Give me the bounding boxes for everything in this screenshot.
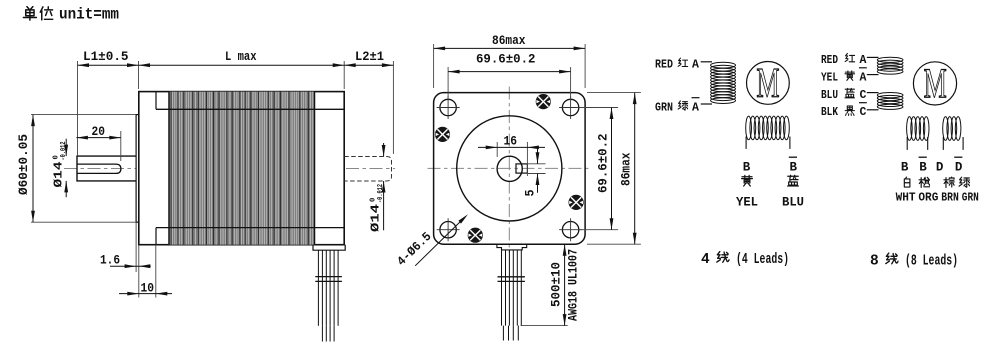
svg-text:B: B [901,160,909,174]
label YEL yellow Abar [821,68,867,85]
mounting hole bottom-left [437,218,460,241]
phase B terminal left [745,137,747,149]
mounting hole bottom-right [559,218,582,241]
svg-text:Ø14: Ø14 [53,161,66,187]
svg-text:D: D [955,160,963,174]
svg-text:20: 20 [92,124,106,139]
label GRN green Abar [655,98,700,115]
label 4-dia6.5 leader [415,218,464,266]
wire A to coil [867,56,879,58]
front wire ends [502,326,504,341]
label RED red A 8lead [821,53,867,66]
8-lead phase A coil [877,57,903,74]
svg-text:Ø60±0.05: Ø60±0.05 [17,134,31,195]
dimension L max [139,64,345,66]
title unit text [23,6,119,24]
svg-text:unit=mm: unit=mm [59,6,119,24]
svg-text:86max: 86max [620,152,634,186]
svg-text:16: 16 [504,134,518,149]
shaft keyway slot [77,164,121,173]
svg-text:AWG18 UL1007: AWG18 UL1007 [566,249,581,321]
label B yellow YEL [736,160,758,209]
side cable tie [315,276,342,278]
front wire exit box [497,244,527,250]
svg-text:0: 0 [52,155,60,159]
dimension 10 [155,245,157,298]
label BLU blue C [821,88,867,102]
side view center line [64,168,395,170]
svg-text:-0.012: -0.012 [377,184,385,203]
4-lead phase A coil [711,62,736,103]
svg-text:BLU: BLU [821,89,838,102]
svg-text:B: B [790,160,798,174]
motor symbol M 4-lead [747,60,790,107]
svg-text:500±10: 500±10 [549,262,564,307]
svg-text:L1±0.5: L1±0.5 [83,49,129,64]
svg-text:A: A [860,54,867,67]
svg-text:-0.012: -0.012 [60,142,68,161]
pilot boss circle [457,116,562,221]
svg-text:BRN: BRN [941,191,959,205]
svg-text:GRN: GRN [962,191,979,205]
dimension 500 wires [521,325,568,327]
svg-text:WHT: WHT [896,191,916,205]
8-lead phase B coil [907,117,929,141]
wire C to coil [867,92,879,94]
side wire exit box [313,245,345,251]
fins boundary lines [168,92,170,245]
svg-text:B: B [743,160,751,174]
svg-text:M: M [924,60,947,107]
svg-text:L max: L max [225,49,257,64]
dimension 16 key [496,142,498,157]
svg-text:(4 Leads): (4 Leads) [736,252,789,268]
phase B terminal right [789,137,791,149]
svg-text:L2±1: L2±1 [355,49,384,64]
labels white orange brown green [904,177,969,188]
motor body outline [139,92,344,245]
label BLK black Cbar [821,103,867,120]
motor symbol M 8-lead [913,60,956,107]
svg-text:A: A [860,71,867,84]
wire Cbar to coil [867,109,879,111]
svg-text:69.6±0.2: 69.6±0.2 [597,134,611,194]
stator lamination fins [169,92,315,245]
svg-text:0: 0 [369,198,377,202]
svg-text:RED: RED [821,54,838,67]
svg-text:YEL: YEL [736,195,758,209]
front view vertical centerline [508,87,510,253]
caption 4 leads [701,252,789,268]
body corner tangent lines [156,108,344,110]
dimension 20 keyway [120,131,122,161]
motor shaft side [77,156,136,181]
rear shaft hidden [344,157,391,182]
wire RED A to coil [701,61,712,63]
8-lead phase D coil [943,117,961,141]
svg-text:A: A [692,101,699,114]
front cable tie [498,276,525,278]
front lead wires [501,250,503,326]
svg-text:GRN: GRN [655,101,673,114]
8-lead phase C coil [877,93,903,110]
svg-text:BLK: BLK [821,106,838,119]
dimension 86max right [587,92,641,94]
svg-text:69.6±0.2: 69.6±0.2 [476,52,536,67]
dimension dia14 rear [383,143,385,157]
labels WHT ORG BRN GRN [896,191,979,205]
svg-text:RED: RED [655,59,673,72]
svg-text:C: C [860,106,867,119]
svg-text:M: M [756,60,779,107]
side lead wires [317,250,319,326]
dimension dia60 [31,114,136,116]
wire Abar to coil [867,74,879,76]
mounting hole top-left [437,96,460,119]
mounting hole top-right [559,96,582,119]
front pilot boss [136,115,139,223]
assembly screw lower-right [569,195,584,210]
dimension 69.6 top [447,67,449,101]
svg-text:(8 Leads): (8 Leads) [905,254,958,270]
svg-text:A: A [692,59,699,72]
dimension 69.6 right [579,107,618,109]
dimension L2 [343,61,345,89]
svg-text:C: C [860,89,867,102]
assembly screw upper-right [536,94,551,109]
labels B Bbar D Dbar [901,157,963,174]
svg-text:YEL: YEL [821,71,838,84]
end cap step notches [155,92,157,110]
svg-text:10: 10 [141,281,155,296]
key slot front [516,164,527,173]
dimension 1.6 [135,222,137,272]
dimension 5 key [527,163,545,165]
svg-text:8: 8 [870,254,879,270]
wire GRN A to coil [701,103,712,105]
phase B terminals [906,137,908,150]
shaft circle front [497,156,522,181]
svg-text:Ø14: Ø14 [370,204,383,232]
assembly screw upper-left [435,127,450,142]
assembly screw lower-left [468,228,483,243]
side wire ends [321,326,323,342]
dimension 86max top [433,44,435,88]
front view horizontal centerline [428,167,592,169]
label AWG18 UL1007 [566,249,581,321]
svg-text:D: D [936,160,944,174]
svg-text:1.6: 1.6 [100,253,120,268]
4-lead phase B coil [746,116,790,140]
label Bbar blue BLU [782,157,804,209]
svg-text:4: 4 [701,252,710,268]
svg-text:ORG: ORG [918,191,938,205]
svg-text:BLU: BLU [782,195,804,209]
dimension dia14 front [65,139,67,156]
caption 8 leads [870,253,958,269]
phase D terminals [942,137,944,150]
label RED red A [655,58,699,71]
svg-text:86max: 86max [492,33,526,48]
dimension L1 [77,61,79,156]
front flange square [434,93,585,245]
svg-text:B: B [919,160,927,174]
svg-text:5: 5 [523,189,538,196]
